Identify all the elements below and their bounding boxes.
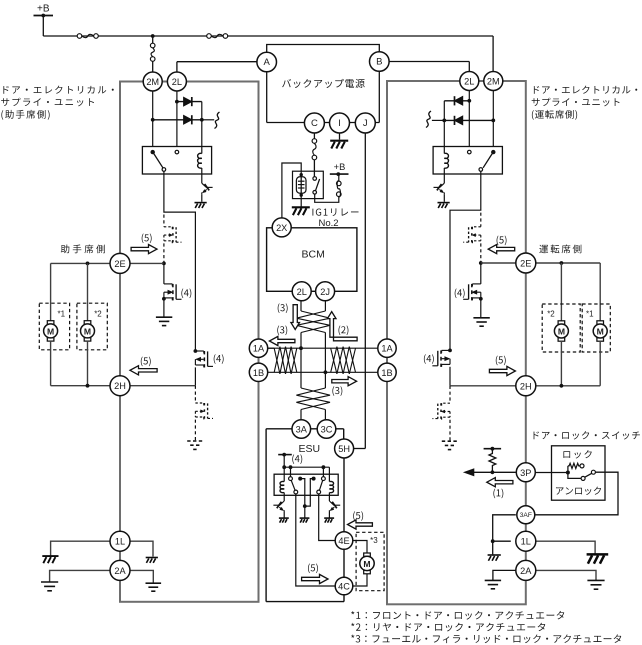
wire 2A left to ground <box>50 570 110 581</box>
dashed branch lower right with dashed MOSFET <box>449 386 451 403</box>
connector 5H <box>335 439 354 458</box>
label (2) <box>338 326 348 336</box>
ESU relay box <box>274 474 338 495</box>
right relay contact <box>479 168 483 172</box>
label passenger side <box>61 245 105 254</box>
left horizontal twisted pair to 1A/1B <box>274 347 297 374</box>
wire MOSFET2 to 2H row <box>194 367 196 385</box>
connector 3AF <box>517 506 535 524</box>
svg-text:2L: 2L <box>464 77 474 87</box>
ground ESU left transistor <box>279 518 289 523</box>
svg-text:4E: 4E <box>338 536 349 546</box>
+B feed of IG1 relay <box>330 173 349 175</box>
svg-text:1A: 1A <box>253 344 265 354</box>
connector right 2A <box>516 560 536 580</box>
right relay transistor Q2 <box>443 174 445 183</box>
wire diode junction into relay coil <box>201 120 203 154</box>
svg-text:C: C <box>311 118 318 129</box>
wire diode junction <box>201 102 203 120</box>
connector left 1A <box>249 339 267 357</box>
IG1 relay switch <box>313 177 317 181</box>
connector 2J (BCM) <box>316 282 335 301</box>
motor M *3 <box>364 553 371 556</box>
diode D2 left (from 2M) <box>153 119 202 121</box>
right unit box (door electrical supply unit, driver side) <box>387 81 526 604</box>
junction under MOSFET1 <box>162 297 166 301</box>
svg-text:M: M <box>597 327 604 337</box>
inline connector pair 2 on bus <box>207 34 212 39</box>
wire 2E to junction <box>130 262 164 264</box>
wires motors to 2H row <box>50 341 52 386</box>
dashed branch with dashed MOSFET (upper right) <box>480 213 482 227</box>
MOSFET (4) lower left <box>195 350 203 352</box>
twisted pair BCM to crossing <box>296 311 330 333</box>
chassis ground below 3AF branch <box>488 555 501 561</box>
wire left 2M pin down <box>152 91 154 147</box>
break squiggle left <box>215 112 220 129</box>
diode D1 left (from 2L) <box>177 101 202 103</box>
ESU switch 2 <box>322 477 326 481</box>
MOSFET (4) upper right <box>472 283 480 285</box>
switch arm <box>585 473 592 477</box>
svg-text:*2: *2 <box>94 309 102 318</box>
wire to break squiggle <box>202 119 214 121</box>
junction on 2L line <box>175 100 179 104</box>
svg-text:BCM: BCM <box>302 249 325 261</box>
resistor pull-up at 3P <box>484 448 502 450</box>
arrow (3) right below 1B <box>332 377 357 386</box>
junction common ground wire <box>303 504 307 508</box>
svg-text:2A: 2A <box>114 566 126 576</box>
label (3) mid <box>277 326 287 336</box>
label (3) lower <box>332 386 342 396</box>
svg-text:2M: 2M <box>146 77 159 87</box>
wires rail to switch contacts <box>290 467 292 477</box>
motor M right *1 <box>597 321 604 324</box>
ground under left relay transistor <box>201 194 203 202</box>
right relay switch arm <box>483 154 492 168</box>
label (1) with left arrow <box>487 478 513 487</box>
earth ground left under right 2A <box>485 580 501 588</box>
svg-text:+B: +B <box>37 4 50 15</box>
right relay coil <box>444 153 448 168</box>
svg-text:3P: 3P <box>520 468 531 478</box>
connector left 2L <box>167 72 186 91</box>
svg-text:M: M <box>84 326 91 336</box>
label backup power supply <box>282 79 365 88</box>
wire junction down to right MOSFET1 <box>480 263 482 284</box>
svg-text:*2: *2 <box>547 310 555 319</box>
svg-text:3A: 3A <box>296 425 308 435</box>
junction twist-left on 1A row <box>299 346 303 350</box>
MOSFET (4) upper left <box>164 283 172 285</box>
label (5) with left arrow near left 2H <box>141 357 151 367</box>
right horizontal twisted pair <box>331 347 356 374</box>
connector 3P <box>516 463 535 482</box>
svg-text:1L: 1L <box>115 537 125 547</box>
connector right 2E <box>516 253 536 273</box>
connector 3C <box>317 420 336 439</box>
connector 4C <box>335 577 353 595</box>
footnote *1 front door lock actuator <box>351 611 564 620</box>
diode D2 right <box>444 119 493 121</box>
svg-text:J: J <box>363 118 368 129</box>
svg-text:*1: *1 <box>58 309 66 318</box>
chassis ground right of 1L <box>146 558 158 563</box>
svg-text:2L: 2L <box>172 77 182 87</box>
wire left relay contact down and jog <box>164 171 196 351</box>
svg-text:2E: 2E <box>520 259 531 269</box>
svg-text:B: B <box>376 57 382 68</box>
junction under right MOSFET1 <box>479 297 483 301</box>
junction twist-right on 1B row <box>324 370 328 374</box>
connector right 2M <box>484 72 503 91</box>
connector 4E <box>335 532 353 550</box>
wire 2A left to ground <box>493 570 516 580</box>
junction on right 2L line <box>467 99 471 103</box>
row 1B wire <box>267 371 378 373</box>
label right unit <box>534 86 637 94</box>
svg-text:2M: 2M <box>487 77 500 87</box>
svg-text:1B: 1B <box>253 368 264 378</box>
motor M right *2 <box>558 321 565 324</box>
label (5) with right arrow near 4C <box>308 564 318 574</box>
svg-text:M: M <box>47 326 54 336</box>
wires twist to rows <box>300 333 302 389</box>
connector J <box>355 113 375 133</box>
svg-text:M: M <box>363 559 370 569</box>
earth ground right of 2A <box>146 583 162 591</box>
wire 2L(left) to A <box>176 62 178 72</box>
connector left 2E <box>110 253 130 273</box>
earth ground right under right 2A <box>587 580 604 589</box>
svg-text:1B: 1B <box>381 368 392 378</box>
ESU left relay coil <box>280 481 284 492</box>
switch output contact <box>591 470 595 474</box>
wire 3P to switch common <box>535 472 568 474</box>
arrow (2) up from right <box>327 312 357 341</box>
connector left 2A <box>110 560 130 580</box>
wires right motors to 2H row <box>560 341 562 386</box>
ESU left transistor Q3 <box>279 501 284 505</box>
wire ESU switch2 to 4E <box>319 494 336 541</box>
IG1 relay coil with resistor <box>296 177 306 193</box>
wires down to right motors <box>599 263 601 321</box>
wire right 2M pin down <box>492 91 494 147</box>
ESU box <box>266 428 344 430</box>
wire coil top to 2X <box>282 163 301 218</box>
ground under left MOSFET1 <box>163 299 165 317</box>
connector left 1B <box>249 363 267 381</box>
svg-text:1A: 1A <box>381 344 393 354</box>
label driver side <box>539 245 581 254</box>
wire to break squiggle right <box>432 119 444 121</box>
wire 1L right to ground <box>536 541 595 554</box>
label IG1 relay <box>312 208 358 216</box>
wire left 2L pin down <box>176 91 178 147</box>
svg-text:A: A <box>264 57 271 68</box>
wire right 2L pin down <box>468 91 470 147</box>
dashed box right motor *2 rear door lock actuator <box>542 304 580 352</box>
svg-text:2E: 2E <box>114 259 125 269</box>
svg-text:5H: 5H <box>338 444 350 454</box>
wire 2H row <box>130 385 195 387</box>
svg-text:2H: 2H <box>520 381 532 391</box>
twisted pair crossing to ESU <box>296 388 330 410</box>
footnote *3 fuel filler lid lock actuator <box>351 634 621 643</box>
arrow (3) left toward 1A <box>269 336 295 345</box>
ESU right transistor Q4 <box>329 501 334 505</box>
label (5) with left arrow near 4E <box>353 511 363 521</box>
wire down to motor *1 <box>50 263 52 321</box>
junction at right 2E branch <box>479 261 483 265</box>
label (5) with left arrow near right 2E <box>497 236 507 246</box>
left relay transistor Q1 <box>201 174 203 183</box>
junction drain right MOSFET2 <box>448 349 452 353</box>
earth ground left of 2A <box>41 582 58 591</box>
connector left 2M <box>143 72 162 91</box>
svg-text:2H: 2H <box>114 381 126 391</box>
switch common junction <box>566 471 570 475</box>
connector right 1L <box>516 531 536 551</box>
wire diode junction into right relay coil <box>443 120 445 153</box>
svg-text:2A: 2A <box>520 566 532 576</box>
label left unit <box>3 86 113 94</box>
dashed branch with dashed MOSFET (upper left) <box>163 215 165 227</box>
svg-text:3AF: 3AF <box>520 512 532 519</box>
dashed ground lower left <box>187 441 203 449</box>
wire bus to left 2M with inline connector <box>152 36 154 43</box>
svg-text:M: M <box>558 327 565 337</box>
MOSFET (4) lower right <box>442 349 450 351</box>
connector right 1B <box>378 363 396 381</box>
label (3) upper <box>278 303 288 313</box>
backup power supply box <box>267 45 380 54</box>
wire 1L left to junction <box>493 540 511 542</box>
svg-text:3C: 3C <box>321 425 333 435</box>
junction on 2M line <box>151 118 155 122</box>
dashed box motor *2 rear door lock actuator <box>77 303 107 350</box>
left relay switch pivot <box>151 150 155 154</box>
wire right 2E to junction <box>481 262 516 264</box>
connector I <box>330 113 350 133</box>
left relay coil <box>198 153 202 168</box>
switch unlock branch <box>568 473 581 479</box>
motor M *1 <box>47 321 54 324</box>
wire ESU switch1 to 4C <box>296 494 335 586</box>
BCM box <box>267 228 357 291</box>
footnote *2 rear door lock actuator <box>351 623 545 632</box>
inline connector pair 1 on bus <box>77 34 82 39</box>
wire 3AF left down to 1L junction and ground <box>493 515 516 555</box>
svg-text:2L: 2L <box>297 287 307 297</box>
wire 2J down to twist <box>324 301 326 311</box>
wire 2E row to motors <box>51 262 110 264</box>
wire right 2E row to motors <box>536 262 600 264</box>
left unit box (door electrical supply unit, passenger side) <box>120 82 259 602</box>
dashed box *3 fuel filler lid lock actuator <box>356 532 384 590</box>
wire switch output to 3AF <box>535 472 618 515</box>
left relay contact <box>162 168 166 172</box>
label (5) with right arrow near right 2H <box>496 356 506 366</box>
wire right diode junction <box>443 101 445 121</box>
svg-text:4C: 4C <box>338 582 350 592</box>
wire 3P left with arrow to other page <box>474 471 516 473</box>
junction drain MOSFET2 left <box>194 349 198 353</box>
wire right MOSFET2 to 2H row <box>449 367 451 386</box>
wire B to 2L(right) <box>389 61 470 63</box>
wire +B to bus <box>42 16 44 37</box>
connector 2L (BCM) <box>292 282 311 301</box>
connector C <box>304 113 324 133</box>
arrow (3) down <box>291 305 300 330</box>
chassis ground left of 1L <box>42 556 58 563</box>
right door relay box <box>433 147 502 175</box>
ESU switch 1 <box>289 477 293 481</box>
wire 2L down to twist <box>300 301 302 311</box>
junction right motor *2 bottom <box>560 384 564 388</box>
svg-text:1L: 1L <box>521 537 531 547</box>
wire J down to 5H <box>364 133 366 449</box>
svg-text:+B: +B <box>334 162 346 172</box>
svg-text:*1: *1 <box>586 310 594 319</box>
wire relay switch to +B via inline connector <box>315 194 339 202</box>
wire +B to relay rail <box>283 455 285 482</box>
IG1 relay No.2 box <box>293 171 324 198</box>
wire top bus <box>43 35 493 37</box>
ground under right MOSFET1 <box>480 299 482 318</box>
connector 3A <box>292 420 311 439</box>
relay feed rail <box>284 466 329 468</box>
switch resistor branch to lock contact <box>567 466 569 473</box>
motor M *2 <box>84 321 91 324</box>
connector 2X <box>272 218 291 237</box>
door lock switch box <box>552 446 606 500</box>
connector A <box>257 52 277 72</box>
wire C down with inline connector <box>313 133 315 139</box>
svg-text:ESU: ESU <box>299 443 321 455</box>
junction on bus above left 2M <box>151 34 155 38</box>
junction at 2E branch <box>162 262 166 266</box>
left door relay box <box>142 147 211 175</box>
svg-text:2X: 2X <box>276 223 287 233</box>
wire bus down to right 2M <box>492 36 494 72</box>
wire 1L right to ground <box>130 541 153 556</box>
ground ESU switch commons <box>300 518 310 523</box>
wire junction down to MOSFET1 <box>163 263 165 284</box>
connector right 2L <box>460 72 479 91</box>
diode D1 right <box>444 100 469 102</box>
junction motor *2 bottom <box>86 384 90 388</box>
left relay switch arm <box>154 154 163 168</box>
row 1A wire <box>267 347 378 349</box>
unlock contact <box>581 476 585 480</box>
left relay 2L terminal <box>175 150 179 154</box>
connector left 1L <box>110 531 130 551</box>
junction 1L-left <box>491 539 495 543</box>
break squiggle right <box>426 111 431 128</box>
ground under I <box>339 133 341 140</box>
junction right motor *2 top <box>560 261 564 265</box>
ground under right relay transistor <box>443 194 445 202</box>
label (5) with right arrow near left 2E <box>142 234 152 244</box>
junction motor *2 top <box>86 262 90 266</box>
door lock switch label <box>534 431 640 439</box>
wire rail to right coil <box>328 467 330 481</box>
ground under IG1 coil <box>300 195 302 207</box>
connector right 1A <box>378 339 396 357</box>
chassis ground right of right 1L <box>587 554 609 563</box>
junction on right 2M line <box>491 119 495 123</box>
connector right 2H <box>516 376 536 396</box>
connector B <box>370 52 390 72</box>
dashed branch lower left with dashed MOSFET <box>194 386 196 403</box>
wire 1L left to ground <box>51 541 110 555</box>
+B feed in ESU <box>278 454 292 456</box>
ground ESU right transistor <box>324 518 334 523</box>
wire 2A right to ground <box>130 570 153 582</box>
right relay 2L terminal <box>468 150 472 154</box>
wire right 2H row <box>450 385 516 387</box>
dashed ground lower right <box>442 441 458 449</box>
svg-text:*3: *3 <box>370 536 378 545</box>
wire right relay contact down and jog <box>450 171 481 350</box>
wire 4E to motor *3 <box>353 541 367 553</box>
right relay switch pivot <box>491 150 495 154</box>
svg-text:2J: 2J <box>320 287 330 297</box>
wire motor *3 to 4C <box>353 574 367 586</box>
ESU right relay coil <box>329 481 333 492</box>
wire down to motor *2 <box>87 263 89 321</box>
wire 2A right to ground <box>536 570 596 580</box>
svg-text:I: I <box>338 118 341 129</box>
junction resistor on 3P wire <box>491 470 495 474</box>
dashed box motor *1 front door lock actuator <box>39 303 69 350</box>
connector left 2H <box>110 376 130 396</box>
dashed box right motor *1 front door lock actuator <box>582 304 610 352</box>
